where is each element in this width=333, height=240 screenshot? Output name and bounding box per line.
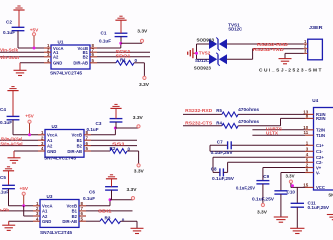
svg-text:C3: C3	[96, 121, 102, 126]
U3 pin 7 stub (B1)	[79, 210, 86, 212]
svg-text:SD12C: SD12C	[195, 58, 210, 63]
svg-text:A2: A2	[47, 143, 53, 148]
wire DIR-AB to R3	[86, 220, 100, 222]
resistor R5 470ohms	[222, 112, 238, 117]
junction	[114, 127, 117, 130]
svg-text:5Vin-Pb: 5Vin-Pb	[0, 208, 9, 214]
U4 pin 13 stub (R1IN)	[305, 113, 314, 115]
capacitor C8	[219, 168, 221, 176]
ground (flipped, above C2)	[17, 5, 20, 7]
capacitor C11	[296, 187, 298, 203]
svg-text:T1IN: T1IN	[316, 133, 325, 138]
wire R5 to U4 R1IN	[238, 113, 305, 115]
svg-text:C4: C4	[0, 107, 6, 112]
svg-text:3.3V: 3.3V	[134, 169, 145, 174]
junction	[195, 52, 198, 55]
junction	[119, 42, 122, 45]
svg-text:R3: R3	[105, 216, 111, 221]
U4 pin 10 stub (T2IN)	[305, 129, 314, 131]
ground C10	[274, 216, 288, 218]
ground (flipped, above C3)	[114, 103, 117, 105]
U4 pin 8 stub (R2IN)	[305, 117, 314, 119]
wire GND pin to ground	[9, 220, 33, 222]
svg-text:C8: C8	[211, 167, 217, 172]
svg-text:R5: R5	[216, 108, 222, 113]
wire R3 to ground	[121, 220, 138, 222]
svg-text:R2: R2	[110, 146, 116, 151]
svg-text:C10: C10	[287, 190, 296, 195]
wire DIR-AB to R1	[97, 62, 116, 64]
svg-text:SN74LVC2T45: SN74LVC2T45	[44, 155, 76, 160]
IC U4 body (RS-232 transceiver, clipped at right edge)	[314, 108, 333, 191]
svg-text:U1TX: U1TX	[266, 131, 279, 137]
power 3.3V connector	[137, 125, 140, 128]
svg-text:C1+: C1+	[316, 143, 324, 148]
svg-text:0.1uF,25V: 0.1uF,25V	[212, 176, 234, 181]
svg-text:GND: GND	[47, 149, 56, 154]
wire B1	[91, 139, 137, 141]
junction	[28, 133, 31, 136]
wire VccB to 3.3V	[97, 47, 121, 49]
wire DIR-AB to R2	[91, 150, 110, 152]
wire RS232-CTS to R4	[183, 125, 222, 127]
wire GND pin to ground	[14, 150, 38, 152]
ground (flipped, above C5)	[7, 166, 10, 168]
resistor R1	[116, 60, 134, 65]
svg-text:C7: C7	[217, 139, 223, 144]
svg-text:C2: C2	[6, 20, 12, 25]
power 3.3V connector	[261, 203, 264, 206]
svg-text:DIR-AB: DIR-AB	[73, 61, 88, 66]
svg-text:RS232-RXD: RS232-RXD	[185, 108, 213, 114]
capacitor C1	[115, 32, 128, 34]
svg-text:B2: B2	[83, 55, 89, 60]
svg-text:C6: C6	[89, 189, 95, 194]
TVS diode TVS1 SD12C	[197, 43, 210, 45]
wire V- to C10	[281, 172, 305, 174]
svg-text:C5: C5	[0, 175, 6, 180]
svg-text:SDI1: SDI1	[98, 209, 112, 215]
U2 pin 3 stub (A2)	[38, 145, 45, 147]
wire B2 (SS1)	[91, 145, 137, 147]
U4 pin 2 stub (V+)	[305, 167, 314, 169]
U4 pin 6 stub (V-)	[305, 172, 314, 174]
svg-text:3.3V: 3.3V	[257, 210, 268, 215]
wire +5V to VccA	[33, 36, 35, 48]
U1 pin 4 stub (GND)	[44, 62, 51, 64]
svg-text:15: 15	[303, 182, 308, 187]
U4 pin 15 stub (VCC)	[305, 186, 314, 188]
capacitor C9	[256, 180, 269, 182]
U3 pin 5 stub (DIR-AB)	[79, 220, 86, 222]
ground (flipped, above C1)	[119, 15, 122, 17]
U2 pin 1 stub (VccA)	[38, 134, 45, 136]
U1 pin 5 stub (DIR-AB)	[90, 62, 97, 64]
wire C10 to ground	[280, 194, 282, 217]
svg-text:3.3V: 3.3V	[133, 115, 144, 120]
svg-text:VccA: VccA	[47, 133, 57, 138]
svg-text:U1: U1	[58, 40, 64, 45]
junction	[22, 204, 25, 207]
svg-text:T2IN: T2IN	[316, 128, 325, 133]
U4 pin 1 stub (C1+)	[305, 144, 314, 146]
svg-text:VCC: VCC	[316, 185, 325, 190]
U3 pin 8 stub (VccB)	[79, 205, 86, 207]
U4 pin 4 stub (C2+)	[305, 156, 314, 158]
svg-text:C1: C1	[101, 30, 107, 35]
svg-text:3.3V: 3.3V	[139, 82, 150, 87]
ground (flipped, above C4)	[11, 86, 14, 88]
wire A1 (Vin-Pb)	[0, 210, 33, 212]
svg-text:5Vin-ACSel: 5Vin-ACSel	[1, 141, 23, 147]
capacitor C6	[105, 186, 118, 188]
ground U3	[2, 224, 15, 226]
svg-text:R4: R4	[216, 120, 222, 125]
wire C11 to ground	[296, 207, 298, 228]
wire R4 to U4 R2IN	[238, 125, 280, 127]
IC U1 SN74LVC2T45 body	[51, 45, 90, 69]
U2 pin 7 stub (B1)	[84, 139, 91, 141]
U2 pin 2 stub (A1)	[38, 139, 45, 141]
J3ER pin 2 stub	[304, 48, 308, 50]
svg-text:V-: V-	[316, 170, 321, 175]
U2 pin 4 stub (GND)	[38, 150, 45, 152]
wire 3.3V to VCC pin	[290, 183, 292, 187]
svg-text:U3: U3	[47, 194, 53, 199]
junction	[33, 47, 36, 50]
capacitor C5	[2, 184, 15, 186]
wire A1 (5Vin-CKSel)	[0, 139, 38, 141]
U3 pin 1 stub (VccA)	[33, 205, 40, 207]
TVS diode TVS2 SD12C	[197, 58, 210, 60]
U4 pin 11 stub (T1IN)	[305, 134, 314, 136]
wire J3ER pin3 to ground	[285, 52, 304, 54]
wire A2 (Vin-Sout)	[0, 56, 44, 58]
wire +5V to A2	[23, 206, 25, 216]
svg-text:C9: C9	[263, 174, 269, 179]
wire R2 to 3.3V	[127, 150, 139, 152]
wire C2 to VccA net	[17, 31, 19, 48]
U1 pin 6 stub (B2)	[90, 56, 97, 58]
svg-text:0: 0	[135, 58, 138, 63]
wire VccB to 3.3V	[91, 134, 115, 136]
svg-text:3.3V: 3.3V	[286, 174, 296, 179]
wire T2IN (U1RTS)	[252, 129, 305, 131]
svg-text:DIR-AB: DIR-AB	[67, 149, 82, 154]
capacitor C3	[110, 118, 123, 120]
U2 pin 8 stub (VccB)	[84, 134, 91, 136]
wire TVS2 to J3ER pin2 (RS232-TXD)	[227, 58, 253, 60]
wire VccB to 3.3V	[86, 205, 110, 207]
ground J3ER	[279, 58, 292, 60]
IC U2 SN74LVC2T45 body	[45, 130, 84, 158]
svg-text:0.1uF,25V: 0.1uF,25V	[308, 205, 330, 210]
ground U1	[14, 69, 27, 71]
svg-text:470ohms: 470ohms	[238, 107, 259, 112]
resistor R4 470ohms	[222, 123, 238, 128]
svg-text:SOD923: SOD923	[197, 37, 215, 42]
svg-text:GND: GND	[42, 219, 51, 224]
wire V+ to C9	[263, 167, 305, 169]
svg-text:U4: U4	[312, 98, 318, 103]
svg-text:RS232-TXD: RS232-TXD	[253, 47, 285, 53]
svg-text:A1: A1	[47, 138, 53, 143]
U4 pin 5 stub (C2-)	[305, 161, 314, 163]
wire A1 (Vin-Sclk)	[0, 51, 44, 53]
resistor R2	[110, 149, 127, 154]
wire A2 (5Vin-ACSel)	[0, 145, 38, 147]
svg-text:U2: U2	[52, 124, 58, 129]
U3 pin 6 stub (B2)	[79, 215, 86, 217]
U3 pin 3 stub (A2)	[33, 215, 40, 217]
U2 pin 6 stub (B2)	[84, 145, 91, 147]
U1 pin 2 stub (A1)	[44, 51, 51, 53]
svg-text:Vin-Sout: Vin-Sout	[0, 55, 19, 61]
ground (left-pointing, TVS common)	[193, 52, 197, 54]
wire C4 to VccA net	[12, 120, 14, 135]
svg-text:B1: B1	[77, 138, 83, 143]
capacitor C4	[7, 115, 20, 117]
svg-text:0.1uF: 0.1uF	[3, 30, 15, 35]
power 3.3V connector	[140, 39, 143, 42]
svg-text:Vin-Sclk: Vin-Sclk	[0, 47, 18, 53]
IC U3 SN74LVC2T45 body	[40, 200, 79, 228]
ground (flipped, above C6)	[110, 174, 113, 176]
svg-text:+5V: +5V	[20, 186, 29, 191]
svg-text:+5V: +5V	[30, 27, 39, 32]
J3ER pin 1 stub	[304, 43, 308, 45]
svg-text:0.1uF: 0.1uF	[0, 120, 12, 125]
U1 pin 1 stub (VccA)	[44, 47, 51, 49]
wire C1+ loop	[210, 144, 228, 146]
svg-text:10: 10	[303, 125, 308, 130]
svg-text:VccB: VccB	[72, 133, 82, 138]
U1 pin 7 stub (B1)	[90, 51, 97, 53]
svg-text:SN74LVC2T45: SN74LVC2T45	[50, 71, 82, 76]
U4 pin 3 stub (C1-)	[305, 150, 314, 152]
svg-text:TVS2: TVS2	[199, 50, 211, 55]
wire C9 to 3.3V	[262, 184, 264, 204]
svg-text:0.1uF: 0.1uF	[83, 196, 95, 201]
capacitor C2	[12, 26, 25, 28]
svg-text:GND: GND	[53, 61, 62, 66]
svg-text:3.3V: 3.3V	[137, 29, 148, 34]
svg-text:SOD923: SOD923	[194, 66, 212, 71]
junction	[291, 184, 294, 187]
svg-text:A2: A2	[53, 55, 59, 60]
svg-text:+5V: +5V	[25, 113, 34, 118]
svg-text:0.1uF: 0.1uF	[0, 190, 9, 195]
svg-text:0.1uF,25V: 0.1uF,25V	[236, 185, 255, 190]
connector J3ER CUI_SJ-2523-SMT	[308, 39, 323, 60]
svg-text:CUI_SJ-2523-SMT: CUI_SJ-2523-SMT	[259, 68, 323, 74]
wire R1 to 3.3V	[134, 62, 144, 64]
svg-text:0.1uF,25V: 0.1uF,25V	[252, 196, 274, 201]
power 3.3V connector	[137, 164, 140, 167]
wire B1 (SDI1)	[86, 210, 133, 212]
wire C5 to VccA net	[8, 189, 10, 206]
ground C11	[290, 227, 304, 229]
svg-text:B2: B2	[77, 143, 83, 148]
resistor R3	[100, 219, 121, 224]
power 3.3V connector	[131, 197, 134, 200]
svg-text:11: 11	[304, 130, 309, 135]
svg-text:C1-: C1-	[316, 149, 323, 154]
svg-text:0.1uF,25V: 0.1uF,25V	[211, 150, 233, 155]
svg-text:470ohms: 470ohms	[238, 119, 259, 124]
ground U2	[8, 157, 21, 159]
capacitor C10	[274, 190, 287, 192]
svg-text:R2IN: R2IN	[316, 116, 326, 121]
junction	[109, 198, 112, 201]
svg-text:J3ER: J3ER	[309, 25, 323, 30]
wire B1 (SCK1)	[97, 51, 150, 53]
svg-text:SN65C3232: SN65C3232	[328, 193, 333, 198]
svg-text:SN74LVC2T45: SN74LVC2T45	[40, 230, 72, 235]
ground (clipped at right edge)	[327, 214, 333, 216]
wire T1IN (U1TX)	[252, 134, 305, 136]
U1 pin 8 stub (VccB)	[90, 47, 97, 49]
J3ER pin 3 stub	[304, 52, 308, 54]
U3 pin 4 stub (GND)	[33, 220, 40, 222]
wire TVS common vertical	[196, 44, 198, 59]
wire C2+ loop	[213, 156, 305, 158]
U2 pin 5 stub (DIR-AB)	[84, 150, 91, 152]
svg-text:R1: R1	[120, 57, 126, 62]
U1 pin 3 stub (A2)	[44, 56, 51, 58]
capacitor C7	[227, 141, 229, 149]
svg-text:0.1uF: 0.1uF	[87, 127, 99, 132]
svg-text:SD12C: SD12C	[228, 27, 243, 32]
wire GND pin to ground	[20, 62, 44, 64]
power 3.3V connector	[143, 76, 146, 79]
svg-text:DIR-AB: DIR-AB	[62, 219, 77, 224]
wire TVS1 to J3ER pin1 (RS232-RXD)	[227, 43, 304, 45]
svg-text:0.1uF: 0.1uF	[99, 39, 111, 44]
wire B2 (SDO1)	[97, 56, 150, 58]
U3 pin 2 stub (A1)	[33, 210, 40, 212]
ground R3	[131, 227, 144, 229]
svg-text:3.3V: 3.3V	[127, 187, 138, 192]
wire RS232-RXD to R5	[183, 113, 222, 115]
